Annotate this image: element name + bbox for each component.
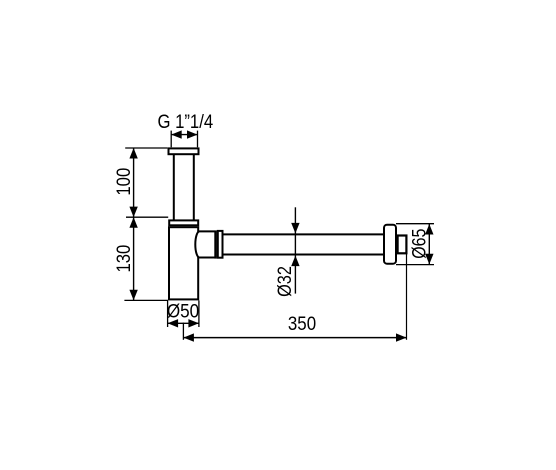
left dimension line	[133, 148, 135, 300]
vertical pipe wall left	[173, 155, 175, 220]
350 arrowhead left	[183, 333, 194, 341]
G arrowhead right	[187, 130, 198, 138]
svg-text:Ø65: Ø65	[408, 228, 430, 258]
350 right ext line	[406, 254, 408, 340]
bottle nut	[169, 220, 198, 225]
350 arrowhead right	[396, 333, 407, 341]
svg-text:130: 130	[113, 245, 134, 273]
horizontal pipe bottom wall	[224, 254, 385, 256]
D50 ext tick right	[198, 301, 200, 328]
350 dim line	[183, 337, 406, 339]
elbow thick edge	[214, 230, 217, 258]
pipe end stub	[398, 236, 407, 254]
G dim line	[171, 134, 197, 136]
D32 arrow up	[291, 256, 299, 267]
D50 arrowhead right	[188, 319, 199, 327]
130 arrow up	[129, 217, 137, 228]
D32 leader line	[294, 207, 296, 293]
130 arrow down	[129, 290, 137, 301]
D32 arrow down	[291, 223, 299, 234]
D65 arrow up	[425, 224, 433, 235]
G arrowhead left	[171, 130, 182, 138]
D50 dim line	[168, 322, 199, 324]
D65 arrow down	[425, 254, 433, 264]
svg-text:350: 350	[288, 313, 316, 334]
D65 bottom ext line	[396, 264, 434, 266]
100 arrow up	[129, 148, 137, 159]
top flange	[169, 148, 199, 154]
100 arrow down	[129, 207, 137, 218]
ext line top (flange top)	[125, 147, 167, 149]
svg-text:Ø50: Ø50	[167, 301, 199, 322]
D65 dim line	[428, 224, 430, 265]
svg-text:Ø32: Ø32	[274, 266, 295, 297]
350 centre line	[182, 323, 184, 340]
svg-text:G 1”1/4: G 1”1/4	[157, 111, 213, 132]
elbow	[195, 231, 214, 257]
svg-text:100: 100	[113, 168, 134, 196]
horizontal pipe top wall	[224, 233, 385, 235]
D50 arrowhead left	[168, 319, 179, 327]
bottle body	[169, 227, 198, 299]
D65 top ext line	[396, 223, 434, 225]
wall rosette flange	[384, 225, 396, 264]
vertical pipe wall right	[193, 155, 195, 220]
ext line bottom (bottle bottom)	[124, 299, 168, 301]
union ring	[218, 231, 223, 258]
G dim extension tick left	[170, 131, 172, 148]
G dim extension tick right	[197, 131, 199, 148]
D50 ext tick left	[167, 301, 169, 328]
ext line middle (nut top)	[126, 216, 168, 218]
